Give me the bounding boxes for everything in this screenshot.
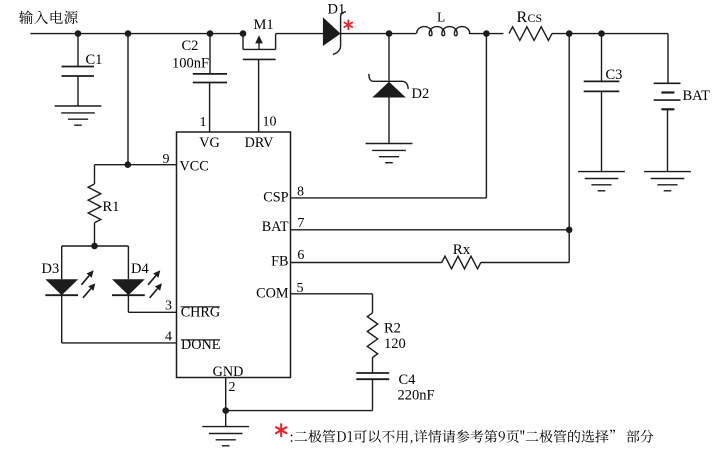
svg-text:100nF: 100nF [172,55,209,71]
wire VCC pin 9 [95,164,177,166]
node junction VCC feed [125,30,132,37]
svg-text:C1: C1 [86,52,103,68]
wire LED top bus [62,245,129,247]
node junction R1 / LED bus [91,243,98,250]
node junction Rcs/BAT net [566,30,573,37]
node junction M1 source [240,30,247,37]
svg-text:3: 3 [165,299,172,314]
capacitor C1 [77,34,79,67]
wire rail Rcs to battery corner [552,33,668,35]
wire FB right segment [481,262,569,264]
capacitor C4 220nF [372,358,374,374]
transistor M1 PMOS [242,34,244,50]
resistor R2 120 [367,313,377,358]
wire C4 bottom to GND node [226,410,373,412]
svg-text:L: L [437,10,445,25]
svg-text:VG: VG [199,135,220,151]
node junction BAT pin / battery net [566,227,573,234]
diode D2 [388,34,390,81]
svg-text:C2: C2 [182,38,199,54]
svg-text:D1: D1 [328,2,346,18]
red asterisk near D1 [347,20,349,29]
svg-text:2: 2 [229,380,236,395]
svg-text:BAT: BAT [262,219,289,235]
wire rail inductor to Rcs [469,33,504,35]
wire BAT pin 7 [291,229,570,231]
svg-text:CSP: CSP [263,189,288,205]
svg-text:D3: D3 [42,261,60,277]
svg-text:C4: C4 [399,372,417,388]
svg-text:M1: M1 [254,17,274,33]
wire DONE pin 4 [62,342,177,344]
wire COM pin 5 [291,293,373,295]
svg-text:220nF: 220nF [398,387,435,403]
svg-text:1: 1 [200,115,207,130]
svg-text:GND: GND [213,364,244,380]
node junction on VCC line [125,161,132,168]
node junction C1 [75,30,82,37]
svg-text:4: 4 [165,329,172,344]
svg-text:R2: R2 [384,320,401,336]
svg-text:R1: R1 [103,199,120,215]
node junction GND [222,407,229,414]
ground below C1 [55,105,102,107]
wire VIN to VCC pin [127,34,129,165]
svg-text:C3: C3 [606,67,623,83]
wire M1 gate to pin10 DRV [258,59,260,132]
wire FB pin 6 left segment [291,262,442,264]
ground below C3 [578,171,625,173]
resistor Rx [442,256,481,269]
wire CSP pin 8 to sense node [291,197,487,199]
ground below battery [644,171,691,173]
resistor R1 [94,165,96,184]
wire GND pin 2 [225,378,227,427]
svg-text:BAT: BAT [683,88,711,104]
node junction C2 [207,30,214,37]
node junction switch node D1/D2 [386,30,393,37]
node junction L/CSP [483,30,490,37]
inductor L [417,27,470,36]
wire CHRG pin 3 [128,311,176,313]
LED D3 [61,246,63,279]
node VIN label 输入电源 [19,11,77,25]
svg-text:7: 7 [297,216,304,231]
svg-text:D2: D2 [412,86,430,102]
svg-text:Rx: Rx [453,242,471,258]
capacitor C2 100nF [209,34,211,74]
ground below GND pin [202,426,249,428]
diode D1 schottky [323,17,341,46]
svg-text:120: 120 [384,336,406,352]
wire sense node vertical [485,34,487,198]
svg-text:6: 6 [297,248,304,263]
footnote text [291,430,615,445]
svg-text:FB: FB [271,254,288,270]
wire C2 to pin1 VG [209,83,211,133]
wire input rail left segment [30,33,243,35]
svg-text:10: 10 [263,115,277,130]
resistor RCS [509,27,552,41]
wire rail D1 cathode to inductor [341,33,416,35]
svg-text:CS: CS [528,11,543,25]
wire battery net vertical [568,34,570,263]
node junction C3 [598,30,605,37]
svg-text:D4: D4 [131,261,149,277]
svg-text:VCC: VCC [180,159,209,175]
wire D3 cathode down to DONE [61,295,63,343]
LED D4 [127,246,129,279]
wire D4 cathode down to CHRG [127,295,129,312]
wire rail M1-right to D1 anode [276,33,324,35]
red asterisk footnote marker [280,424,282,436]
ground below D2 [366,143,413,145]
svg-text:R: R [517,9,528,26]
capacitor C3 [601,34,603,82]
op-amp U1 charger controller IC body [177,132,291,378]
battery BAT [667,34,669,84]
svg-text:DRV: DRV [245,135,275,151]
svg-text:COM: COM [256,285,289,301]
